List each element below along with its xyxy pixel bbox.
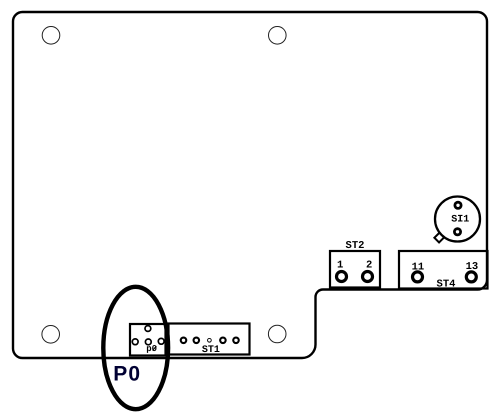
P0 hole top: [145, 326, 151, 332]
svg-text:11: 11: [412, 262, 425, 274]
buzzer SI1 tab: [434, 230, 446, 242]
svg-text:1: 1: [337, 260, 343, 272]
highlight ellipse around P0: [103, 287, 168, 409]
svg-text:ST4: ST4: [437, 279, 456, 291]
connector P0 box: [130, 324, 166, 356]
SI1 pin bottom: [453, 227, 462, 236]
ST4 pin 11: [411, 270, 424, 283]
connector ST4 box: [399, 251, 488, 289]
SI1 pin top: [454, 201, 463, 210]
svg-text:13: 13: [466, 261, 479, 273]
ST2 pin 1: [335, 270, 348, 283]
P0 hole middle: [145, 339, 151, 345]
P0 hole right: [158, 338, 164, 344]
ST1 pin B: [193, 337, 201, 345]
mounting hole H2: [269, 27, 287, 45]
ST4 pin 13: [465, 270, 478, 283]
svg-text:SI1: SI1: [451, 215, 469, 226]
ST1 center hole: [208, 338, 212, 342]
P0 hole left: [132, 339, 138, 345]
P0 small label zero slash: [153, 346, 157, 351]
ST1 pin C: [219, 337, 227, 345]
mounting hole H3: [42, 326, 60, 344]
ST2 pin 2: [361, 270, 374, 283]
svg-text:P0: P0: [113, 363, 141, 386]
svg-text:p0: p0: [146, 344, 157, 354]
svg-text:ST2: ST2: [346, 240, 365, 252]
mounting hole H1: [42, 27, 60, 45]
svg-text:ST1: ST1: [202, 345, 220, 356]
mounting hole H4: [268, 325, 286, 343]
svg-text:2: 2: [366, 260, 372, 272]
ST1 pin D: [232, 337, 240, 345]
board outline: [13, 12, 487, 358]
buzzer SI1 body: [435, 197, 480, 242]
connector ST1 box: [169, 324, 250, 355]
connector ST2 box: [330, 251, 380, 288]
ST1 pin A: [180, 337, 188, 345]
